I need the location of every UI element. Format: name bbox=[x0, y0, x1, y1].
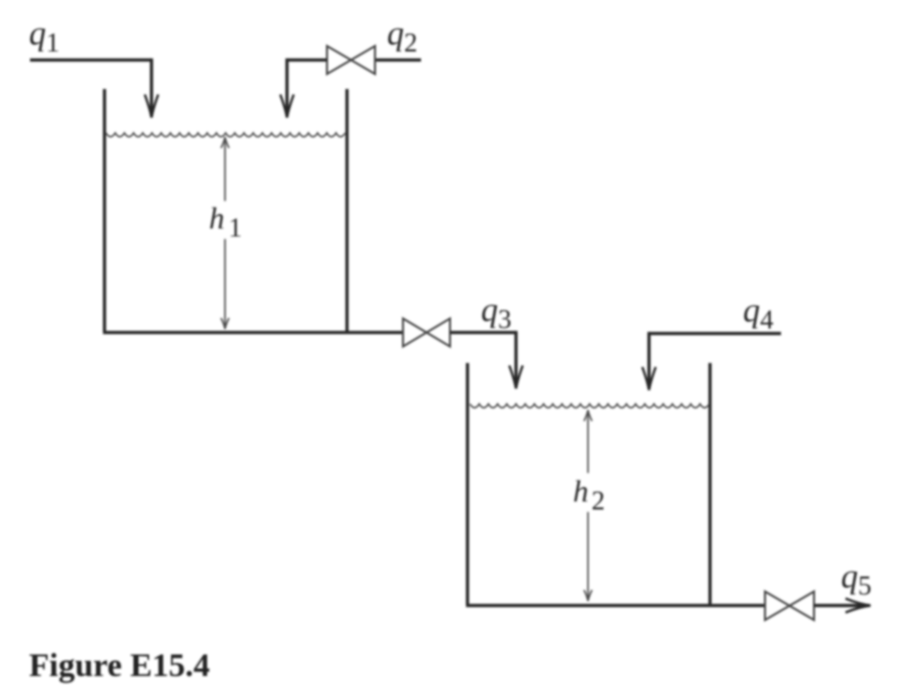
valve on q2 line bbox=[327, 46, 375, 74]
svg-text:q: q bbox=[29, 16, 46, 53]
svg-text:2: 2 bbox=[592, 486, 606, 516]
wire q2 pipe left of valve bbox=[287, 58, 327, 61]
tank 1 bottom / outlet pipe to valve bbox=[103, 331, 403, 334]
arrowhead h1 top bbox=[221, 137, 229, 148]
label q4 bbox=[743, 293, 774, 335]
wire q2 pipe right of valve bbox=[375, 58, 421, 61]
svg-text:1: 1 bbox=[229, 213, 243, 243]
wire q2 vertical drop into tank 1 bbox=[285, 58, 288, 113]
tank 1 left wall bbox=[103, 89, 106, 332]
svg-text:Figure E15.4: Figure E15.4 bbox=[29, 648, 210, 684]
wire q1 inlet pipe horizontal bbox=[30, 58, 152, 61]
svg-text:1: 1 bbox=[46, 28, 60, 58]
tank 1 water surface (wavy) bbox=[106, 133, 345, 137]
arrowhead h1 bottom bbox=[221, 318, 229, 329]
svg-text:h: h bbox=[573, 474, 589, 509]
svg-text:4: 4 bbox=[760, 305, 774, 335]
arrowhead q5 outlet bbox=[846, 599, 871, 613]
h1 dimension arrow upper segment bbox=[224, 139, 226, 201]
arrowhead q3 into tank 2 bbox=[509, 366, 522, 389]
label q5 bbox=[841, 559, 872, 601]
h2 dimension arrow lower segment bbox=[587, 512, 589, 599]
h2 dimension arrow upper segment bbox=[587, 412, 589, 473]
svg-text:q: q bbox=[387, 16, 404, 53]
label q1 bbox=[29, 16, 60, 58]
arrowhead q2 into tank 1 bbox=[280, 95, 293, 118]
wire q1 inlet pipe vertical drop bbox=[150, 58, 153, 113]
svg-text:q: q bbox=[481, 292, 498, 329]
label h2 bbox=[573, 474, 605, 516]
label q3 bbox=[481, 292, 512, 334]
arrowhead h2 bottom bbox=[584, 590, 592, 601]
svg-text:h: h bbox=[209, 201, 225, 236]
valve between tanks (q3) bbox=[403, 319, 450, 347]
tank 2 water surface (wavy) bbox=[470, 404, 709, 408]
wire q4 vertical drop into tank 2 bbox=[647, 332, 650, 386]
arrowhead h2 top bbox=[584, 410, 592, 421]
svg-text:5: 5 bbox=[858, 571, 872, 601]
tank 1 right wall bbox=[345, 89, 348, 332]
svg-text:2: 2 bbox=[404, 28, 418, 58]
valve on q5 outlet bbox=[765, 592, 814, 621]
svg-text:q: q bbox=[841, 559, 858, 596]
svg-text:q: q bbox=[743, 293, 760, 330]
label h1 bbox=[209, 201, 242, 243]
wire q3 vertical drop into tank 2 bbox=[514, 331, 517, 385]
arrowhead q1 into tank 1 bbox=[145, 95, 158, 118]
h1 dimension arrow lower segment bbox=[224, 239, 226, 327]
label q2 bbox=[387, 16, 418, 58]
tank 2 right wall bbox=[708, 363, 711, 605]
wire q4 inlet pipe horizontal bbox=[649, 332, 781, 335]
svg-text:3: 3 bbox=[498, 304, 512, 334]
arrowhead q4 into tank 2 bbox=[642, 367, 655, 390]
tank 2 left wall bbox=[466, 363, 469, 605]
wire q5 outlet pipe with arrow bbox=[814, 604, 868, 607]
wire q3 pipe right of valve bbox=[450, 331, 516, 334]
tank 2 bottom / outlet pipe to valve bbox=[466, 604, 765, 607]
